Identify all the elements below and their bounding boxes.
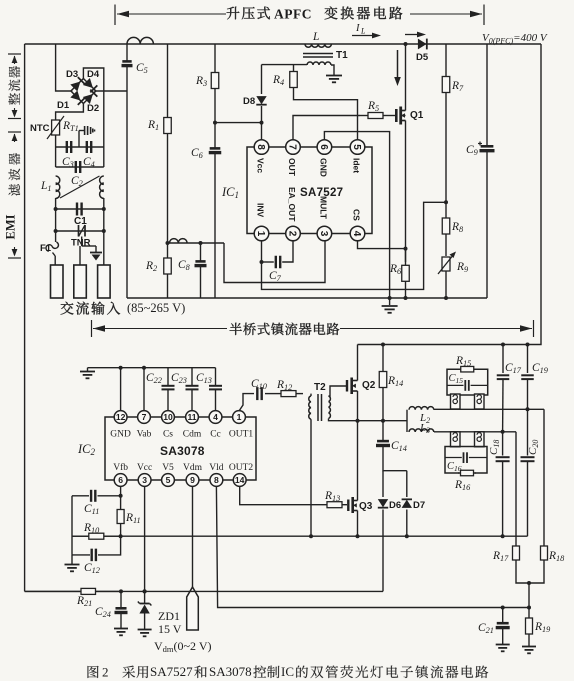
capacitor C16 inside lamp 2	[445, 452, 487, 463]
label C1	[74, 216, 87, 227]
label R11	[125, 512, 141, 525]
junction	[381, 419, 385, 423]
svg-text:C12: C12	[84, 562, 100, 575]
label T2	[314, 382, 326, 393]
svg-text:1: 1	[237, 412, 242, 422]
svg-text:Q1: Q1	[410, 110, 424, 121]
svg-text:Cs: Cs	[163, 430, 173, 440]
svg-text:C6: C6	[191, 147, 204, 160]
svg-text:IC2: IC2	[77, 442, 96, 457]
wire: R3 to C6	[214, 89, 216, 148]
ground: feedback network	[65, 565, 80, 572]
pin 1 top row	[233, 411, 246, 424]
svg-text:R5: R5	[367, 100, 379, 113]
ground: IC2 bias line	[80, 372, 95, 379]
svg-text:R13: R13	[324, 490, 340, 503]
op-amp IC1 SA7527 body	[247, 147, 372, 234]
label NTC	[30, 123, 50, 134]
svg-text:ZD1: ZD1	[158, 609, 180, 623]
wire: C1 line	[56, 208, 104, 210]
wire: R5 to Q1 gate	[391, 115, 397, 117]
margin label: rectifier section bracket	[8, 54, 21, 119]
svg-text:V5: V5	[162, 463, 174, 473]
lamp 2 left filament	[451, 432, 461, 447]
fluorescent lamp 1 tube with C15	[447, 369, 488, 395]
label C16	[447, 461, 462, 473]
wire: C13 to pin4	[215, 390, 217, 411]
svg-text:IC1: IC1	[221, 185, 239, 200]
svg-text:D8: D8	[243, 96, 255, 107]
label C24	[95, 606, 111, 619]
varistor TNR	[79, 225, 86, 237]
zener diode ZD1 15V	[138, 591, 152, 629]
svg-text:15 V: 15 V	[158, 622, 182, 636]
margin label: EMI filter section bracket	[8, 132, 21, 258]
label R2	[145, 260, 157, 273]
pin 5 bottom row	[162, 474, 175, 487]
svg-text:T2: T2	[314, 382, 326, 393]
fluorescent lamp 2 tube with C16	[445, 447, 487, 474]
svg-text:MULT: MULT	[318, 196, 328, 220]
wire: left rail	[24, 44, 26, 591]
wire: pin6 GND to ground column	[324, 132, 389, 305]
label C2	[71, 175, 83, 188]
wire: R19 top	[528, 608, 530, 617]
svg-text:Cc: Cc	[210, 430, 221, 440]
label C15	[449, 373, 464, 385]
label R12	[276, 379, 292, 392]
transistor Q3 MOSFET (lower switch)	[348, 497, 357, 513]
wire: to ground	[71, 555, 73, 564]
svg-text:R9: R9	[456, 261, 468, 274]
junction	[119, 534, 123, 538]
pin 8 Vcc	[254, 140, 269, 155]
fuse F1	[46, 231, 59, 265]
label R9	[456, 261, 468, 274]
diode D6	[378, 499, 388, 508]
label: AC input (85-265 V)	[61, 302, 121, 315]
svg-text:SA3078: SA3078	[209, 664, 252, 679]
resistor R3	[211, 72, 219, 89]
svg-text:3: 3	[318, 231, 329, 237]
transformer T1 secondary winding	[307, 62, 331, 65]
potentiometer R9	[438, 252, 456, 275]
wire: gnd stem	[87, 368, 89, 371]
pin 1 INV	[254, 226, 269, 241]
svg-text:4: 4	[213, 412, 218, 422]
wire: C5 to bridge node	[126, 66, 128, 298]
svg-text:EA_OUT: EA_OUT	[287, 187, 297, 222]
junction	[54, 207, 58, 211]
wire: Q2 source to midpoint	[357, 391, 359, 421]
label C22	[146, 372, 162, 385]
label R5	[367, 100, 379, 113]
wire: T1 secondary left to Vcc feed	[262, 64, 308, 66]
label arrow: boost APFC converter section	[115, 5, 484, 26]
wire: C20 column	[527, 409, 529, 455]
resistor R11	[117, 509, 124, 524]
svg-text:R19: R19	[534, 621, 550, 634]
capacitor C13	[209, 386, 222, 390]
label T1	[336, 50, 348, 61]
svg-text:Vfb: Vfb	[113, 462, 128, 473]
wire: L2-L3 left link	[406, 410, 408, 432]
resistor R16	[458, 470, 476, 476]
wire: C24 to ground	[120, 614, 122, 629]
terminal: AC line 2	[74, 246, 87, 298]
inductor L1 common-mode choke right winding	[100, 176, 104, 198]
lamp 2 top rail	[434, 431, 516, 433]
svg-text:L: L	[312, 31, 319, 43]
wire: Vcc node link	[215, 122, 262, 124]
svg-text:C23: C23	[171, 372, 187, 385]
wire: R1 to ZCD node	[167, 134, 169, 243]
junction	[526, 407, 530, 411]
label Q2	[362, 380, 376, 391]
label R4	[272, 74, 284, 87]
svg-text:C24: C24	[95, 606, 111, 619]
label L3	[419, 422, 430, 435]
wire: Q1 source to CS node	[405, 121, 407, 263]
label R16	[454, 479, 471, 492]
junction	[527, 606, 531, 610]
label R13	[324, 490, 340, 503]
wire: R19 to ground	[528, 636, 530, 646]
lamp 2 right filament	[475, 432, 485, 447]
label C13	[196, 372, 212, 385]
svg-text:C11: C11	[84, 503, 99, 516]
wire: C18 column	[502, 432, 504, 456]
arrow annotation before D5	[405, 32, 426, 38]
svg-text:Vcc: Vcc	[256, 158, 266, 173]
wire: C12 line	[72, 554, 90, 556]
svg-text:1: 1	[255, 231, 266, 237]
wire: T2 secondary bottom to midpoint	[329, 419, 383, 421]
wire: bridge right vertex to C5 column	[94, 90, 127, 92]
capacitor C20	[521, 457, 535, 461]
junction	[166, 241, 170, 245]
svg-text:R3: R3	[195, 75, 207, 88]
junction	[356, 534, 360, 538]
wire: ZCD node line	[168, 242, 225, 244]
svg-text:C5: C5	[136, 62, 148, 75]
wire: C13 top lead	[215, 368, 217, 385]
svg-text:R4: R4	[272, 74, 284, 87]
svg-text:R16: R16	[454, 479, 471, 492]
wire: R7 top	[445, 44, 447, 76]
label R1	[147, 119, 159, 132]
wire: D6 column	[382, 471, 384, 497]
label L2	[419, 412, 430, 425]
label D1	[57, 100, 70, 111]
label C6	[191, 147, 204, 160]
pin 12 top row	[114, 411, 127, 424]
diode D5	[418, 39, 427, 50]
diode D8	[256, 96, 266, 105]
resistor R18	[541, 546, 548, 560]
wire: C9 column top	[486, 44, 488, 146]
bridge rectifier D1-D4	[70, 77, 97, 105]
label TNR	[71, 238, 91, 249]
wire: L1 right to C1 line	[103, 198, 105, 209]
label C12	[84, 562, 100, 575]
label R10	[83, 522, 100, 535]
capacitor C23	[186, 386, 199, 390]
label C4	[83, 156, 95, 169]
pin 14 bottom row	[233, 474, 246, 487]
svg-text:Cdm: Cdm	[183, 430, 202, 440]
caption: Figure 2	[87, 666, 98, 678]
junction	[526, 343, 530, 347]
junction	[102, 229, 106, 233]
svg-text:C14: C14	[391, 440, 407, 453]
wire: C18 to return bus	[502, 461, 504, 536]
svg-text:R14: R14	[387, 375, 403, 388]
transistor Q2 MOSFET	[347, 378, 358, 395]
pin 3 bottom row	[138, 474, 151, 487]
wire: L1 left to C1 line	[55, 198, 57, 209]
junction	[199, 241, 203, 245]
junction	[501, 343, 505, 347]
svg-text:14: 14	[235, 475, 245, 485]
svg-text:6: 6	[318, 144, 329, 150]
wire: T2 secondary top to Q2 gate	[329, 386, 348, 396]
wire: R14 top	[382, 345, 384, 371]
junction	[119, 494, 123, 498]
label C7	[269, 270, 282, 283]
transistor Q1 MOSFET	[396, 107, 405, 125]
terminal: AC line 1	[51, 265, 64, 298]
junction	[102, 207, 106, 211]
junction	[142, 366, 146, 370]
svg-text:D2: D2	[87, 103, 99, 114]
svg-text:R12: R12	[276, 379, 292, 392]
capacitor C11	[91, 490, 95, 502]
pin 10 top row	[162, 411, 175, 424]
svg-text:C8: C8	[178, 259, 191, 272]
wire: top rail to bridge left vertex	[56, 44, 73, 91]
svg-text:Q2: Q2	[362, 380, 376, 391]
label Q3	[359, 501, 373, 512]
wire: pin6 Vfb down	[120, 486, 122, 509]
junction	[404, 296, 408, 300]
transformer T1 primary (boost inductor L)	[305, 44, 331, 47]
wire: X-cap line 1	[56, 146, 104, 148]
wire: X-cap line 2 right	[103, 147, 105, 167]
capacitor C19	[521, 375, 534, 379]
svg-text:D3: D3	[66, 69, 78, 80]
label SA3078	[160, 444, 205, 458]
svg-text:C20: C20	[527, 440, 540, 455]
junction	[381, 343, 385, 347]
svg-text:C15: C15	[449, 373, 464, 385]
wire: C17 to lamp2 rail	[502, 379, 504, 432]
title text: half-bridge ballast circuit	[230, 323, 340, 336]
pin 7 OUT	[286, 140, 301, 155]
junction	[501, 534, 505, 538]
junction	[143, 589, 147, 593]
svg-text:D1: D1	[57, 100, 70, 111]
wire: TNR line	[56, 230, 104, 232]
pin 7 top row	[138, 411, 151, 424]
svg-text:2: 2	[286, 231, 297, 237]
wire: D7 column	[406, 471, 408, 497]
wire: C7 left lead	[262, 261, 274, 263]
wire: VCC bus from left rail	[25, 590, 81, 592]
Y-cap midpoint to earth	[79, 126, 95, 147]
capacitor C8	[195, 261, 207, 265]
label IC1	[221, 185, 239, 200]
resistor R15	[459, 366, 476, 372]
svg-text:INV: INV	[256, 203, 266, 218]
label F1	[40, 243, 52, 254]
svg-text:C7: C7	[269, 270, 282, 283]
wire: C22 top lead	[167, 368, 169, 385]
svg-text:R21: R21	[76, 595, 92, 608]
wire: R4 to Idet	[294, 88, 358, 140]
label D8	[243, 96, 255, 107]
svg-text:OUT: OUT	[287, 158, 297, 177]
svg-text:3: 3	[142, 475, 147, 485]
svg-text:C17: C17	[505, 362, 522, 375]
svg-text:12: 12	[116, 412, 126, 422]
wire: IC2 top bias line	[88, 367, 216, 369]
wire: C8 column	[200, 243, 202, 261]
label L	[312, 31, 319, 43]
plus mark of C9	[478, 142, 482, 146]
capacitor C2	[76, 161, 80, 173]
svg-text:R1: R1	[147, 119, 159, 132]
junction	[404, 42, 408, 46]
wire: ZCD to MULT	[224, 241, 325, 283]
pin 4 CS	[350, 226, 365, 241]
wire: R7 to R8	[445, 93, 447, 218]
resistor R17	[513, 546, 520, 560]
svg-text:6: 6	[118, 475, 123, 485]
wire: bridge top vertex jog	[83, 68, 103, 147]
wire: return bus main	[104, 535, 528, 537]
svg-text:OUT2: OUT2	[229, 463, 254, 473]
label C23	[171, 372, 187, 385]
lamp 1 right filament	[475, 394, 485, 409]
wire: pin4 CS to Q1 source	[358, 241, 406, 249]
label Q1	[410, 110, 424, 121]
svg-text:D4: D4	[87, 69, 100, 80]
wire: C21 to ground	[502, 629, 504, 645]
junction	[527, 581, 531, 585]
resistor R4	[290, 71, 298, 88]
svg-text:Vld: Vld	[209, 463, 224, 473]
wire: pin1 lead	[261, 241, 263, 262]
wire: lamp1 rail to R18	[543, 409, 545, 546]
junction	[54, 229, 58, 233]
pin 2 EA_OUT	[286, 226, 301, 241]
wire: left branch column	[71, 496, 73, 555]
label C11	[84, 503, 99, 516]
junction	[501, 606, 505, 610]
svg-text:V0(PFC)=400 V: V0(PFC)=400 V	[482, 32, 548, 46]
resistor R10	[72, 533, 121, 539]
svg-text:R8: R8	[451, 221, 464, 234]
wire: 400V rail right	[358, 44, 542, 345]
wire: sense node down	[528, 583, 530, 608]
junction	[444, 200, 448, 204]
wire: R1 column top	[167, 44, 169, 117]
pin 11 top row	[186, 411, 199, 424]
wire: X-cap line 2 left	[55, 147, 57, 167]
junction	[119, 366, 123, 370]
wire: C24 top	[120, 591, 122, 607]
thermistor RT1 (NTC)	[47, 116, 64, 139]
svg-text:R10: R10	[83, 522, 100, 535]
svg-text:GND: GND	[110, 430, 131, 440]
svg-text:C16: C16	[447, 461, 462, 473]
svg-text:I: I	[355, 23, 360, 34]
label R6	[389, 263, 402, 276]
resistor R1	[164, 117, 172, 134]
capacitor C7	[276, 256, 280, 269]
label C9	[466, 144, 478, 157]
resistor R2	[164, 258, 172, 274]
label R21	[76, 595, 92, 608]
svg-text:7: 7	[286, 144, 297, 150]
svg-text:C19: C19	[532, 362, 548, 375]
inductor: ZCD winding	[170, 239, 188, 243]
svg-text:Vab: Vab	[137, 430, 152, 440]
wire: C14 top	[382, 421, 384, 440]
svg-text:L: L	[360, 27, 366, 36]
transformer T2 primary	[309, 394, 311, 420]
op-amp IC2 SA3078 body	[105, 417, 256, 480]
label C17	[505, 362, 522, 375]
wire: C12 right to bus	[98, 536, 121, 555]
svg-text:R6: R6	[389, 263, 402, 276]
wire: pin14 OUT2 down	[240, 486, 322, 505]
svg-text:11: 11	[187, 412, 196, 422]
wire: R14 bottom to midpoint	[382, 389, 384, 421]
svg-text:C22: C22	[146, 372, 162, 385]
wire: +output top rail	[25, 43, 541, 45]
T1 core	[303, 54, 333, 58]
wire: bridge bottom vertex to thermistor	[56, 103, 84, 120]
wire: X-cap line 2	[56, 166, 104, 168]
capacitor C15 inside lamp 1	[447, 380, 488, 391]
wire: line1 to line2 right	[103, 209, 105, 231]
wire: Q3 source to return bus	[357, 511, 359, 537]
resistor R5	[360, 113, 391, 119]
wire: C9 to ground bus	[486, 151, 488, 298]
svg-text:(85~265 V): (85~265 V)	[127, 301, 185, 315]
wire: pin3 Vcc down to VCC bus	[144, 486, 146, 591]
pin 6 bottom row	[114, 474, 127, 487]
wire: pin9 Vdm down	[192, 486, 194, 588]
label D4	[87, 69, 100, 80]
svg-text:IC: IC	[281, 664, 294, 679]
wire: C21 top	[502, 608, 504, 623]
wire: C5 column	[126, 44, 128, 61]
wire: C19 column top	[527, 345, 529, 374]
label R17	[492, 550, 509, 563]
wire: INV to R8 tap	[262, 202, 447, 289]
label C5	[136, 62, 148, 75]
wire: T1 secondary right to ground	[331, 65, 334, 75]
junction	[213, 121, 217, 125]
label R3	[195, 75, 207, 88]
capacitor C14	[376, 441, 390, 445]
earth ground for TNR	[82, 237, 102, 261]
label C10	[251, 378, 268, 391]
svg-text:7: 7	[142, 412, 147, 422]
